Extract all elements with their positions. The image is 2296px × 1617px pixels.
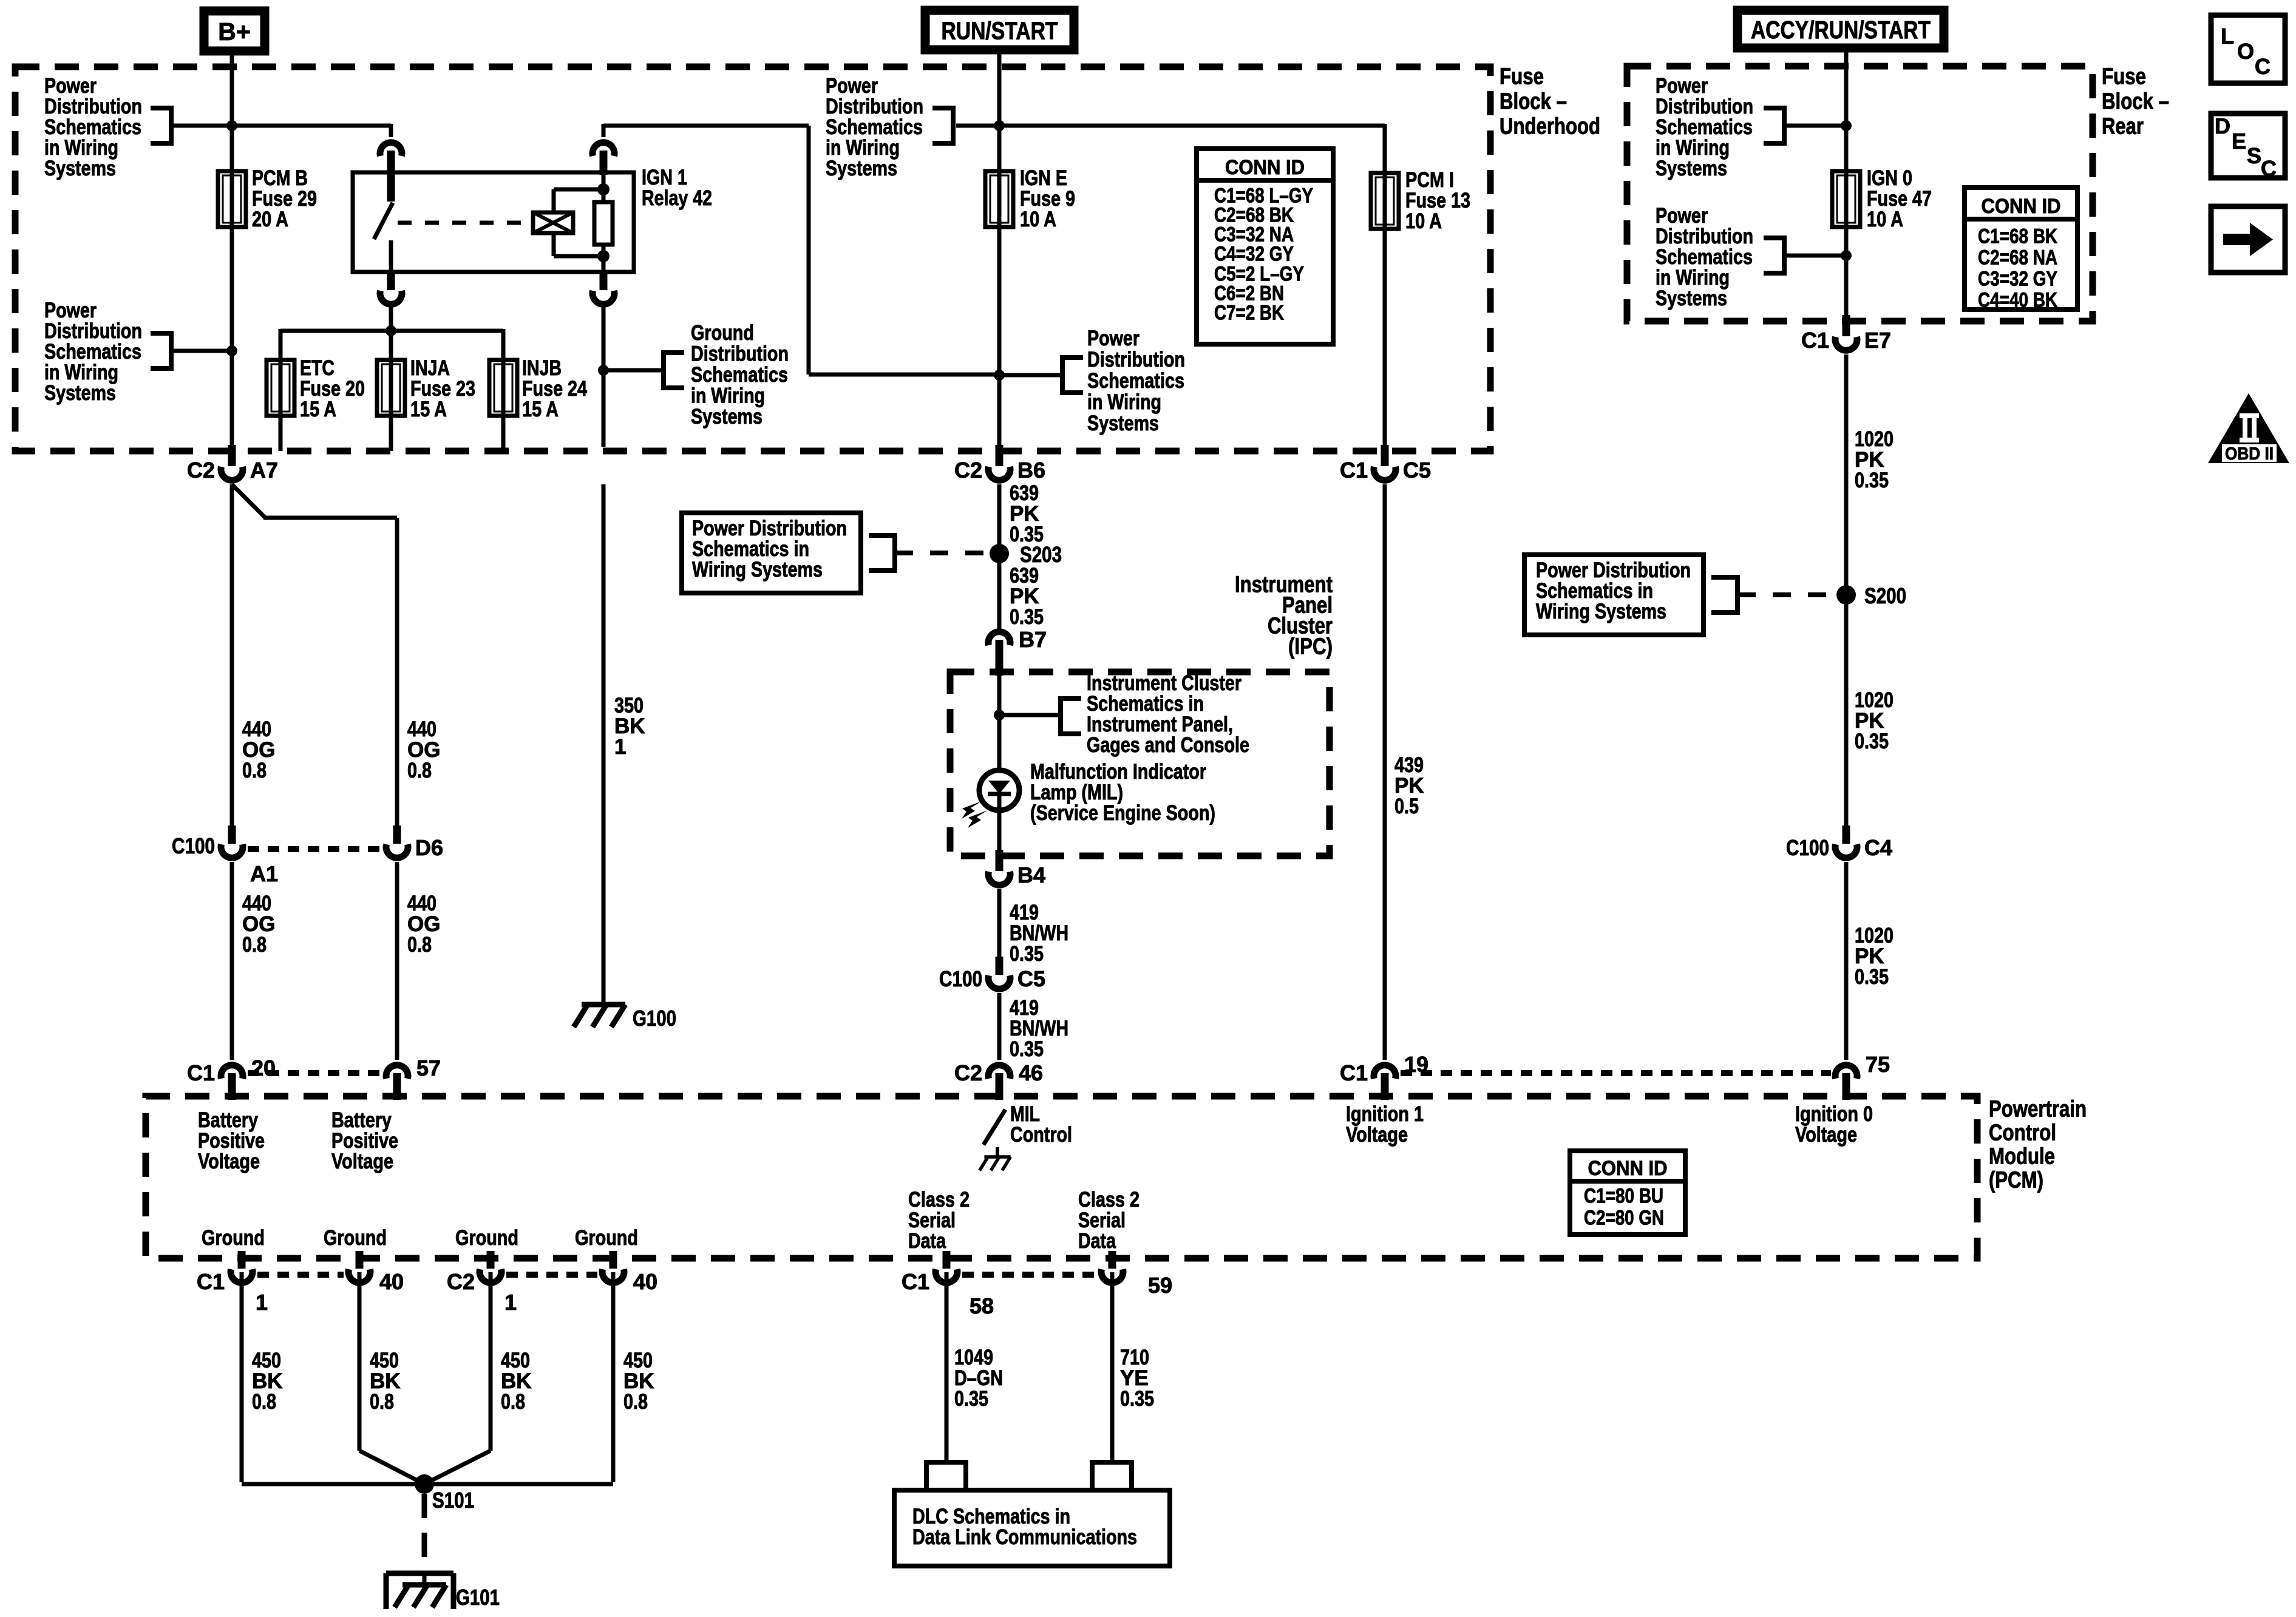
svg-text:CONN ID: CONN ID: [1982, 195, 2061, 218]
svg-text:C7=2 BK: C7=2 BK: [1214, 301, 1284, 324]
svg-text:C2: C2: [447, 1269, 475, 1294]
svg-text:Module: Module: [1989, 1144, 2055, 1169]
wire ground 4: [611, 1272, 616, 1482]
wire A7 down to C100 A1: [230, 484, 234, 825]
wire relay pin 4 down to F3: [602, 307, 606, 447]
svg-text:ACCY/RUN/START: ACCY/RUN/START: [1751, 16, 1931, 44]
svg-text:S: S: [2247, 143, 2261, 168]
dashed link 58-59: [962, 1272, 1096, 1278]
svg-text:C1: C1: [187, 1060, 215, 1085]
svg-text:in Wiring: in Wiring: [1087, 390, 1161, 414]
wire B7 into IPC: [997, 676, 1002, 770]
wire IGN 0 fuse to E7: [1844, 227, 1849, 317]
connector C2 B6: [996, 445, 1004, 466]
bracket instrument cluster: [1061, 696, 1081, 701]
svg-text:0.35: 0.35: [1855, 730, 1889, 753]
svg-text:(Service Engine Soon): (Service Engine Soon): [1030, 801, 1215, 825]
wire A7 diagonal branch: [232, 484, 265, 518]
relay switch blade: [374, 203, 393, 239]
wire bracket to ACCY rail 2: [1784, 254, 1846, 258]
svg-text:0.8: 0.8: [407, 759, 432, 782]
svg-text:Gages and Console: Gages and Console: [1087, 733, 1249, 757]
svg-text:Wiring Systems: Wiring Systems: [692, 558, 823, 581]
svg-text:15 A: 15 A: [410, 398, 447, 421]
wire relay pin 3 to fuse bus: [389, 307, 393, 331]
label box Power Distribution Schematics (S203): [682, 513, 861, 593]
svg-text:20: 20: [251, 1056, 276, 1080]
bracket rear bottom: [1764, 236, 1784, 240]
connector pin 40 (1): [356, 1251, 364, 1269]
switch MIL control: [983, 1110, 1005, 1145]
wire 440 OG right lower: [395, 862, 399, 1060]
connector arc relay pin 4: [600, 272, 608, 290]
svg-text:S203: S203: [1020, 542, 1062, 567]
svg-text:C1: C1: [197, 1269, 225, 1294]
svg-text:Relay 42: Relay 42: [642, 186, 712, 210]
splice S200: [1836, 585, 1856, 605]
svg-text:C2=80 GN: C2=80 GN: [1584, 1206, 1664, 1229]
svg-text:0.8: 0.8: [407, 933, 432, 957]
svg-text:Fuse: Fuse: [1500, 64, 1544, 89]
wire 1049 D-GN: [945, 1272, 949, 1462]
wire RUN/START rail top: [997, 54, 1002, 171]
node junction IPC: [994, 710, 1005, 720]
svg-text:Control: Control: [1989, 1120, 2056, 1145]
svg-text:(IPC): (IPC): [1288, 634, 1333, 659]
label box Power Distribution Schematics (S200): [1524, 555, 1703, 635]
svg-text:Systems: Systems: [44, 157, 116, 180]
svg-text:Voltage: Voltage: [1346, 1123, 1408, 1147]
svg-text:Voltage: Voltage: [1795, 1123, 1857, 1147]
svg-text:15 A: 15 A: [522, 398, 559, 421]
bracket S200: [1711, 575, 1737, 580]
svg-text:Systems: Systems: [691, 405, 763, 429]
wire INJB fuse to border: [501, 416, 506, 451]
svg-text:S101: S101: [432, 1488, 474, 1513]
svg-text:1: 1: [614, 735, 626, 759]
wire S200 down to C100 C4: [1844, 595, 1849, 825]
svg-text:E7: E7: [1864, 328, 1891, 353]
svg-text:C1: C1: [902, 1269, 929, 1294]
svg-text:S200: S200: [1864, 583, 1906, 608]
svg-text:C2=68 NA: C2=68 NA: [1978, 246, 2057, 269]
relay coil wiring: [552, 189, 556, 212]
svg-text:46: 46: [1019, 1060, 1043, 1085]
svg-text:OBD II: OBD II: [2225, 444, 2274, 464]
svg-text:G100: G100: [633, 1006, 676, 1031]
wire E7 down to S200: [1844, 354, 1849, 595]
node junction B+ rail: [226, 120, 237, 131]
table CONN ID rear: [1965, 188, 2077, 310]
svg-text:C1: C1: [1340, 458, 1368, 483]
wire S203 to B7: [997, 554, 1002, 629]
wire ground 1: [240, 1272, 244, 1482]
wire junction to bracket: [603, 368, 664, 373]
connector pin 59: [1109, 1251, 1116, 1269]
svg-text:Schematics: Schematics: [1087, 369, 1184, 393]
legend box LOC: [2211, 15, 2285, 83]
fuse INJA Fuse 23: [389, 360, 393, 416]
svg-text:0.8: 0.8: [501, 1390, 525, 1414]
wire 440 OG left lower: [230, 862, 234, 1060]
connector B7: [988, 632, 1010, 645]
connector arc relay pin 3: [387, 272, 395, 290]
wire ACCY rail top: [1844, 52, 1849, 171]
svg-text:Block –: Block –: [2102, 89, 2169, 114]
svg-text:C: C: [2255, 54, 2271, 79]
svg-text:Schematics: Schematics: [691, 363, 788, 387]
svg-text:RUN/START: RUN/START: [942, 17, 1058, 45]
svg-text:C2: C2: [187, 458, 215, 483]
wire relay coil feed elbow: [603, 124, 809, 128]
wire ETC fuse to border: [279, 416, 283, 451]
Fuse Block - Rear dashed box: [1627, 66, 2093, 321]
relay resistor: [594, 202, 613, 245]
bracket S203: [869, 533, 895, 538]
svg-text:Data: Data: [1078, 1229, 1116, 1253]
svg-text:Control: Control: [1010, 1123, 1072, 1147]
wire to INJB fuse: [501, 329, 506, 360]
connector C100 D6: [393, 825, 401, 844]
svg-text:Underhood: Underhood: [1500, 114, 1600, 139]
svg-text:Voltage: Voltage: [198, 1150, 260, 1173]
terminal B+: [204, 11, 265, 51]
ground G101: [386, 1571, 453, 1576]
svg-text:A7: A7: [250, 458, 278, 483]
ground MIL control: [996, 1147, 999, 1156]
table CONN ID PCM: [1570, 1151, 1685, 1235]
svg-text:Data Link Communications: Data Link Communications: [912, 1525, 1137, 1549]
svg-text:0.8: 0.8: [252, 1390, 276, 1414]
wire ground 3: [489, 1272, 493, 1451]
svg-text:B+: B+: [218, 18, 251, 46]
connector C1 1: [238, 1251, 246, 1269]
connector pin 75: [1835, 1065, 1857, 1079]
svg-text:75: 75: [1866, 1052, 1890, 1077]
connector arc relay pin 2: [593, 143, 614, 156]
svg-text:Power: Power: [1087, 327, 1140, 350]
fuse INJB Fuse 24: [501, 360, 506, 416]
svg-text:57: 57: [416, 1056, 441, 1080]
svg-text:CONN ID: CONN ID: [1588, 1157, 1668, 1180]
svg-text:0.8: 0.8: [242, 933, 267, 957]
connector B4: [996, 850, 1004, 871]
svg-text:C1=68 BK: C1=68 BK: [1978, 225, 2057, 248]
svg-text:E: E: [2232, 129, 2246, 154]
svg-text:Systems: Systems: [1656, 286, 1727, 310]
svg-text:B7: B7: [1019, 627, 1047, 652]
svg-text:0.8: 0.8: [623, 1390, 648, 1414]
svg-text:0.35: 0.35: [1010, 605, 1044, 629]
svg-text:59: 59: [1148, 1273, 1172, 1298]
wire fuse bus: [280, 329, 503, 333]
bracket power distribution right: [1062, 355, 1083, 360]
svg-text:C: C: [2261, 156, 2277, 181]
legend box DESC: [2211, 114, 2285, 178]
svg-text:0.8: 0.8: [242, 759, 267, 782]
svg-text:(PCM): (PCM): [1989, 1167, 2043, 1193]
wire to ETC fuse: [279, 329, 283, 360]
svg-text:Systems: Systems: [1087, 412, 1159, 435]
svg-text:C2: C2: [954, 1060, 982, 1085]
legend box arrow: [2211, 206, 2285, 273]
wire F3 down to G100: [602, 484, 606, 1005]
terminal ACCY/RUN/START: [1737, 10, 1944, 48]
wire RUN/START feed to PCM I fuse: [956, 124, 1385, 128]
svg-text:0.35: 0.35: [1855, 965, 1889, 989]
connector C2 1: [487, 1251, 495, 1269]
dashed link C100 A1-D6: [248, 846, 381, 852]
table CONN ID underhood: [1197, 149, 1333, 344]
wire B4 to C100 C5: [997, 889, 1002, 957]
svg-text:B4: B4: [1017, 863, 1045, 887]
lamp emission arrows: [962, 801, 982, 819]
bracket RUN/START label: [932, 106, 953, 110]
svg-text:1: 1: [504, 1290, 517, 1315]
wire C5 to pin 46: [997, 993, 1002, 1060]
svg-text:C100: C100: [172, 833, 215, 858]
node junction B+ rail 2: [226, 345, 237, 356]
fuse ETC Fuse 20: [279, 360, 283, 416]
svg-text:C5: C5: [1403, 458, 1431, 483]
wire B+ line corner down to relay: [389, 124, 393, 137]
dashed leader to S200: [1737, 592, 1832, 597]
Instrument Panel Cluster dashed box: [950, 672, 1330, 856]
svg-text:C4: C4: [1864, 835, 1892, 860]
connector C2 46: [988, 1065, 1010, 1079]
svg-text:0.35: 0.35: [1010, 1037, 1044, 1061]
svg-text:Distribution: Distribution: [1087, 348, 1185, 371]
svg-text:15 A: 15 A: [300, 398, 336, 421]
wire junction to bracket (power distribution): [999, 373, 1062, 378]
svg-text:10 A: 10 A: [1405, 209, 1442, 233]
wire bracket to ACCY rail: [1784, 124, 1846, 128]
bracket rear top: [1764, 106, 1784, 110]
wire 710 YE: [1110, 1272, 1115, 1462]
legend OBD II symbol: [2208, 393, 2289, 463]
svg-text:58: 58: [970, 1293, 994, 1318]
splice S101: [415, 1474, 434, 1494]
svg-text:10 A: 10 A: [1867, 208, 1903, 231]
relay coil symbol: [533, 212, 573, 233]
wire fuse29 to connector A7: [230, 227, 234, 447]
svg-text:40: 40: [379, 1269, 404, 1294]
dashed leader to S203: [895, 551, 987, 555]
connector C100 A1: [228, 825, 236, 844]
node junction ACCY rail bottom: [1841, 250, 1852, 261]
svg-text:40: 40: [633, 1269, 657, 1294]
svg-text:C4=40 BK: C4=40 BK: [1978, 288, 2057, 311]
Powertrain Control Module dashed box: [146, 1096, 1977, 1258]
wire bracket to B+ rail 2: [171, 349, 232, 353]
fuse IGN E Fuse 9: [997, 171, 1002, 227]
svg-text:Ground: Ground: [202, 1226, 265, 1250]
svg-text:0.8: 0.8: [370, 1390, 394, 1414]
svg-text:0.35: 0.35: [954, 1387, 988, 1411]
dashed link pin19 to pin75: [1401, 1070, 1831, 1076]
fuse IGN 0 Fuse 47: [1844, 171, 1849, 227]
connector C1 58: [943, 1251, 951, 1269]
wire corner down to PCM I fuse: [1383, 124, 1387, 173]
dashed link pin20 to pin57: [248, 1070, 381, 1076]
svg-text:0.35: 0.35: [1855, 469, 1889, 492]
svg-text:Ground: Ground: [455, 1226, 518, 1250]
svg-text:B6: B6: [1017, 458, 1045, 483]
connector pin 57: [386, 1065, 408, 1079]
wire C5 down to pin 19: [1383, 484, 1387, 1060]
connector C1 20: [221, 1065, 243, 1079]
svg-text:C100: C100: [939, 966, 982, 991]
bracket ground distribution: [664, 350, 684, 355]
wire B+ vertical rail: [230, 55, 234, 171]
dashed wire S101 to G101: [422, 1494, 427, 1573]
connector arc relay pin 1: [380, 143, 402, 156]
svg-text:Wiring Systems: Wiring Systems: [1536, 600, 1666, 623]
svg-text:C1=80 BU: C1=80 BU: [1584, 1184, 1663, 1207]
wire junction to IPC bracket: [999, 713, 1061, 717]
svg-text:in Wiring: in Wiring: [691, 384, 765, 408]
wire ground 2: [358, 1272, 362, 1451]
svg-text:Fuse: Fuse: [2102, 64, 2146, 89]
node junction ACCY rail top: [1841, 120, 1852, 131]
svg-text:A1: A1: [250, 861, 278, 886]
svg-text:Ground: Ground: [691, 321, 754, 345]
lamp MIL (Malfunction Indicator Lamp): [979, 770, 1019, 810]
ground G100: [582, 1002, 625, 1008]
node junction IGN E rail: [994, 370, 1005, 381]
fuse PCM B Fuse 29: [230, 171, 234, 227]
svg-text:Systems: Systems: [44, 381, 116, 405]
svg-text:10 A: 10 A: [1020, 208, 1056, 231]
wire C4 down to pin 75: [1844, 862, 1849, 1060]
svg-text:L: L: [2221, 24, 2234, 49]
terminal staple DLC 1: [926, 1462, 966, 1490]
connector C100 C5 (mid): [996, 957, 1004, 975]
svg-text:Rear: Rear: [2102, 114, 2144, 139]
svg-text:C5: C5: [1017, 966, 1045, 991]
terminal RUN/START: [925, 10, 1074, 50]
splice S203: [990, 544, 1009, 563]
svg-text:20 A: 20 A: [252, 208, 288, 231]
svg-text:0.35: 0.35: [1120, 1387, 1154, 1411]
bracket L2: [151, 331, 171, 336]
wire IGN E fuse down to B6: [997, 227, 1002, 447]
relay coil dashed control line: [398, 221, 526, 225]
wire run/start to relay pin 2: [602, 124, 606, 137]
svg-text:D: D: [2215, 114, 2230, 138]
svg-text:Distribution: Distribution: [691, 342, 789, 366]
svg-text:O: O: [2237, 39, 2254, 64]
svg-text:Powertrain: Powertrain: [1989, 1096, 2087, 1122]
wire B6 to S203: [997, 484, 1002, 554]
svg-text:Systems: Systems: [826, 157, 897, 180]
svg-text:Voltage: Voltage: [331, 1150, 393, 1173]
svg-text:0.5: 0.5: [1394, 795, 1419, 818]
svg-text:C2: C2: [954, 458, 982, 483]
connector C1 19: [1374, 1065, 1396, 1079]
connector C100 C4: [1843, 825, 1850, 844]
svg-text:Data: Data: [908, 1229, 946, 1253]
connector C1 E7: [1843, 315, 1850, 336]
svg-text:Ground: Ground: [324, 1226, 387, 1250]
svg-text:0.35: 0.35: [1010, 942, 1044, 966]
wire INJA fuse to border: [389, 416, 393, 451]
connector pin 40 (2): [610, 1251, 617, 1269]
dashed link C1 1-40: [257, 1272, 344, 1278]
terminal staple DLC 2: [1092, 1462, 1132, 1490]
svg-text:C1: C1: [1801, 328, 1829, 353]
wire bracket to B+ rail: [171, 124, 391, 128]
wire PCM I fuse to C5: [1383, 229, 1387, 447]
svg-text:C100: C100: [1786, 835, 1829, 860]
svg-text:D6: D6: [415, 835, 443, 860]
connector C2 A7: [228, 445, 236, 466]
connector C1 C5: [1381, 445, 1389, 466]
dashed link C2 1-40: [506, 1272, 597, 1278]
fuse PCM I Fuse 13: [1383, 173, 1387, 229]
relay box: [353, 172, 634, 272]
svg-text:G101: G101: [456, 1585, 500, 1610]
box DLC Schematics: [894, 1490, 1170, 1566]
bracket L1: [151, 106, 171, 110]
Fuse Block - Underhood dashed box: [15, 67, 1490, 451]
node junction G100 rail: [598, 365, 609, 376]
svg-text:Ground: Ground: [575, 1226, 638, 1250]
wire to INJA fuse: [389, 331, 393, 360]
svg-text:Systems: Systems: [1656, 157, 1727, 180]
svg-text:C1: C1: [1340, 1060, 1368, 1085]
svg-text:1: 1: [256, 1290, 268, 1315]
svg-text:CONN ID: CONN ID: [1225, 156, 1305, 179]
svg-text:Block –: Block –: [1500, 89, 1567, 114]
node junction RUN/START rail: [994, 120, 1005, 131]
svg-text:C3=32 GY: C3=32 GY: [1978, 267, 2057, 290]
